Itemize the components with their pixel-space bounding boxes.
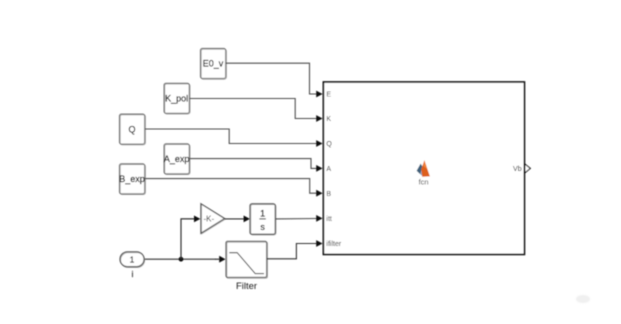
svg-text:E0_v: E0_v [203,58,224,68]
arrowhead at integrator input [244,216,250,223]
wire K_pol to port K [190,99,317,119]
svg-text:A_exp: A_exp [164,154,190,164]
arrowhead at port itt [316,215,322,222]
svg-text:Q: Q [128,124,135,134]
MATLAB logo middle fold [420,167,424,177]
arrowhead at port K [316,115,322,122]
arrowhead at gain input [194,216,200,223]
arrowhead at port ifilter [316,240,322,247]
arrowhead at port Q [316,140,322,147]
svg-text:fcn: fcn [419,177,429,186]
wire A_exp to port A [190,159,317,169]
svg-text:A: A [326,166,331,173]
wire gain to integrator [225,218,245,220]
MATLAB logo orange highlight [423,160,427,169]
svg-text:1: 1 [260,209,265,219]
constant block Q [119,114,145,145]
svg-text:i: i [132,269,134,279]
wire Q to port Q [145,129,317,144]
svg-text:1: 1 [130,254,135,264]
constant block A_exp [164,144,190,175]
integrator block 1/s [250,204,276,235]
wire integrator to port itt [275,218,316,220]
svg-text:itt: itt [326,216,332,223]
wire B_exp to port B [145,179,317,194]
arrowhead at port E [316,91,322,98]
arrowhead at port B [316,190,322,197]
svg-text:B: B [326,191,331,198]
MATLAB logo orange peak [421,160,430,177]
wire Filter to port ifilter [267,244,317,259]
arrowhead at port A [316,165,322,172]
constant block B_exp [119,164,145,195]
svg-text:s: s [260,222,265,232]
wire E0_v to port E [226,63,317,94]
wire branch junction to gain [181,219,195,259]
constant block E0_v [200,48,226,79]
junction node [179,257,184,262]
filter block (transfer fcn icon) [226,241,267,278]
wire input 1 to Filter [145,258,216,260]
svg-text:ifilter: ifilter [326,241,341,248]
faint smudge bottom right [576,295,590,303]
svg-text:-K-: -K- [203,214,214,223]
svg-text:B_exp: B_exp [119,174,145,184]
MATLAB Function block fcn [323,82,524,254]
svg-text:Vb: Vb [513,166,522,173]
svg-text:Filter: Filter [236,281,257,292]
arrowhead at Filter input [219,256,225,263]
svg-text:K: K [326,116,331,123]
input port 1 (i) [120,252,145,268]
gain block -K- [201,204,225,234]
svg-text:Q: Q [326,141,332,148]
svg-text:K_pol: K_pol [165,94,188,104]
constant block K_pol [164,83,190,114]
svg-text:E: E [326,92,331,99]
MATLAB logo left wing [417,164,423,175]
output port Vb arrow [525,164,530,173]
